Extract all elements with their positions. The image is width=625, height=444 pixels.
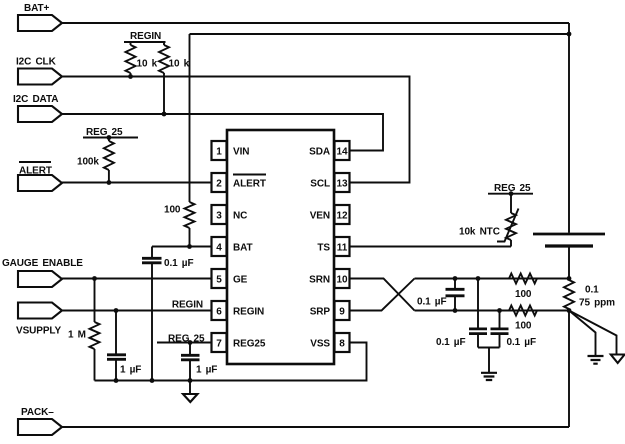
svg-text:4: 4: [216, 242, 222, 253]
svg-text:GAUGE ENABLE: GAUGE ENABLE: [2, 258, 83, 269]
svg-text:I2C DATA: I2C DATA: [13, 94, 58, 105]
resistor 100k (REG25 to ALERT): [77, 138, 114, 183]
svg-text:REG 25: REG 25: [86, 127, 123, 138]
wire right rail (BAT+ to battery): [568, 23, 570, 233]
svg-text:0.1 µF: 0.1 µF: [436, 337, 465, 348]
svg-text:1: 1: [216, 146, 222, 157]
resistor 1 M (GE pulldown): [68, 279, 100, 381]
svg-text:9: 9: [339, 306, 345, 317]
svg-text:11: 11: [337, 242, 348, 253]
battery cell (top plate): [533, 233, 605, 236]
wire BAT+ to top-right corner: [62, 22, 569, 24]
svg-text:ALERT: ALERT: [233, 178, 266, 189]
IC pin 9 box + label SRP: [310, 301, 350, 320]
capacitor 0.1 uF (SRN-SRP differential): [417, 279, 465, 311]
svg-text:2: 2: [216, 178, 222, 189]
IC pin 12 box + label VEN: [310, 205, 350, 224]
ground (earth, below caps): [481, 373, 497, 380]
wire I2C DATA to SDA routing: [62, 114, 383, 151]
svg-text:100k: 100k: [77, 157, 99, 168]
junction 10k/I2C DATA: [162, 112, 167, 117]
IC pin 11 box + label TS: [317, 237, 349, 256]
IC pin 10 box + label SRN: [309, 269, 349, 288]
wire SRN line (upper, after crossover): [415, 278, 570, 280]
capacitor 0.1 uF (SRN to GND): [436, 279, 487, 349]
IC pin 2 box + label ALERT: [212, 173, 267, 192]
svg-text:12: 12: [336, 210, 348, 221]
svg-text:100: 100: [164, 205, 181, 216]
svg-text:0.1 µF: 0.1 µF: [417, 297, 446, 308]
connector flag I2C CLK with label: [16, 57, 62, 85]
svg-text:100: 100: [515, 289, 532, 300]
svg-text:TS: TS: [317, 242, 330, 253]
svg-text:75 ppm: 75 ppm: [579, 298, 615, 309]
wire ground spur 1: [569, 311, 596, 357]
junction REG25 rail/thermistor: [509, 191, 514, 196]
junction 1uF/VSS rail: [114, 378, 119, 383]
svg-text:SRP: SRP: [310, 306, 331, 317]
resistor 100 (BAT filter): [164, 34, 195, 247]
svg-text:1 M: 1 M: [68, 330, 86, 341]
ground (earth, right): [588, 356, 604, 364]
svg-text:10: 10: [336, 274, 348, 285]
svg-text:I2C CLK: I2C CLK: [16, 57, 57, 68]
svg-text:SDA: SDA: [309, 146, 330, 157]
junction sense-res/SRN: [567, 276, 572, 281]
junction SRN-cap/SRN: [476, 276, 481, 281]
connector flag GAUGE ENABLE with label: [2, 258, 83, 287]
wire VSS rail (bottom): [95, 343, 367, 381]
junction GE/1M: [92, 276, 97, 281]
connector flag I2C DATA with label: [13, 94, 62, 122]
wire SRN pin 10 with crossover: [350, 279, 415, 311]
net REG25 rail (left): [83, 127, 138, 138]
net label REGIN (pin 6 wire): [172, 300, 203, 311]
junction diff-cap/SRP: [453, 308, 458, 313]
svg-text:10 k: 10 k: [137, 59, 158, 70]
svg-text:7: 7: [216, 338, 222, 349]
connector flag PACK- with label: [18, 407, 62, 435]
svg-text:VEN: VEN: [310, 210, 330, 221]
IC pin 13 box + label SCL: [310, 173, 349, 192]
wire BAT+ tap (y=34) to right rail: [190, 33, 570, 35]
capacitor 1 uF (VSUPPLY): [107, 311, 141, 381]
wire cap common to ground: [478, 348, 500, 373]
svg-text:1 µF: 1 µF: [120, 365, 141, 376]
svg-text:REG 25: REG 25: [168, 334, 205, 345]
signal ground (triangle, below REG25 cap): [183, 394, 198, 402]
connector flag VSUPPLY with label: [16, 303, 62, 337]
svg-text:100: 100: [515, 321, 532, 332]
junction 0.1uF/VSS rail: [150, 378, 155, 383]
svg-text:5: 5: [216, 274, 222, 285]
capacitor 0.1 uF (SRP to GND): [491, 311, 536, 349]
net REG25 rail (thermistor): [488, 183, 533, 194]
svg-text:14: 14: [336, 146, 348, 157]
IC pin 8 box + label VSS: [310, 333, 349, 352]
svg-text:ALERT: ALERT: [19, 166, 52, 177]
svg-text:BAT+: BAT+: [24, 3, 50, 14]
junction 100/BAT pin wire: [187, 244, 192, 249]
resistor 0.1 75ppm (current sense): [564, 280, 615, 309]
IC pin 6 box + label REGIN: [212, 301, 265, 320]
wire TS pin 11 to thermistor: [350, 246, 511, 248]
IC pin 7 box + label REG25: [212, 333, 266, 352]
wire ground spur 2: [569, 311, 617, 355]
svg-text:10k NTC: 10k NTC: [459, 227, 500, 238]
capacitor 0.1 uF (BAT bypass): [142, 247, 193, 381]
resistor 100 (SRP filter): [509, 306, 537, 332]
capacitor 1 uF (REG25): [181, 343, 217, 395]
svg-text:0.1 µF: 0.1 µF: [507, 337, 536, 348]
svg-text:0.1: 0.1: [585, 285, 599, 296]
svg-text:8: 8: [339, 338, 345, 349]
svg-text:SRN: SRN: [309, 274, 330, 285]
connector flag ALERT with overbar label: [18, 162, 62, 191]
junction BAT+ tap/right rail: [567, 32, 572, 37]
resistor 100 (SRN filter): [509, 274, 537, 301]
wire PACK- to right rail: [62, 426, 569, 428]
wire SRP pin 9 with crossover: [350, 279, 415, 311]
wire SRP line (lower, after crossover): [415, 310, 570, 312]
svg-text:1 µF: 1 µF: [196, 365, 217, 376]
junction 100k/ALERT: [107, 180, 112, 185]
junction diff-cap/SRN: [453, 276, 458, 281]
wire ALERT to pin 2: [62, 182, 211, 184]
connector flag BAT+ with label: [18, 3, 62, 31]
wire sense resistor to PACK-: [568, 311, 570, 428]
IC pin 4 box + label BAT: [212, 237, 253, 256]
junction REG25 rail/100k: [107, 135, 112, 140]
IC pin 3 box + label NC: [212, 205, 248, 224]
svg-text:REGIN: REGIN: [130, 31, 161, 42]
IC pin 14 box + label SDA: [309, 141, 349, 160]
resistor 10 k (left, REGIN to I2C CLK): [126, 45, 158, 77]
wire VSUPPLY/REGIN to pin 6: [62, 310, 211, 312]
wire GE to pin 5: [62, 278, 211, 280]
resistor 10 k (right, REGIN to I2C DATA): [159, 45, 190, 114]
svg-text:13: 13: [336, 178, 348, 189]
IC pin 5 box + label GE: [212, 269, 248, 288]
wire battery to sense resistor: [568, 248, 570, 279]
junction sense-res/SRP: [567, 308, 572, 313]
svg-text:10 k: 10 k: [169, 59, 190, 70]
junction REG25 rail/1uF: [188, 340, 193, 345]
thermistor 10k NTC: [459, 194, 519, 247]
signal ground (triangle, right): [611, 355, 625, 364]
svg-text:3: 3: [216, 210, 222, 221]
svg-text:REG25: REG25: [233, 338, 266, 349]
net REG25 rail (pin 7): [157, 334, 211, 345]
svg-text:BAT: BAT: [233, 242, 253, 253]
IC pin 1 box + label VIN: [212, 141, 250, 160]
junction REG25-cap/VSS rail: [188, 378, 193, 383]
svg-text:PACK–: PACK–: [21, 407, 54, 418]
wire BAT pin 4: [152, 246, 211, 248]
op-amp/IC U1 body (fuel gauge): [227, 130, 334, 364]
svg-text:0.1 µF: 0.1 µF: [164, 258, 193, 269]
svg-text:REGIN: REGIN: [172, 300, 203, 311]
svg-text:VSS: VSS: [310, 338, 330, 349]
svg-text:REGIN: REGIN: [233, 306, 264, 317]
svg-text:SCL: SCL: [310, 178, 330, 189]
svg-text:VSUPPLY: VSUPPLY: [16, 326, 61, 337]
junction SRP-cap/SRP: [497, 308, 502, 313]
net REGIN rail (top): [124, 31, 166, 45]
wire I2C CLK to SCL routing: [62, 77, 410, 183]
junction 10k/I2C CLK: [128, 74, 133, 79]
junction VSUPPLY/1uF: [114, 308, 119, 313]
svg-text:NC: NC: [233, 210, 247, 221]
svg-text:6: 6: [216, 306, 222, 317]
svg-text:VIN: VIN: [233, 146, 249, 157]
svg-text:GE: GE: [233, 274, 248, 285]
battery cell (bottom plate): [545, 244, 593, 247]
